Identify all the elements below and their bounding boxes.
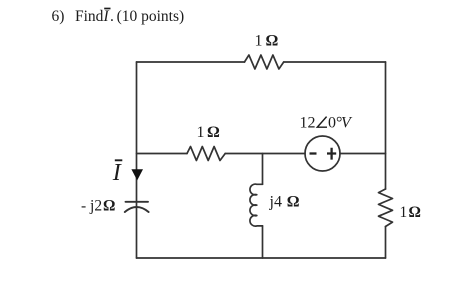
wire top rail left segment bbox=[137, 61, 245, 63]
wire middle branch upper bbox=[262, 154, 264, 185]
svg-text:12: 12 bbox=[300, 115, 316, 132]
svg-text:j4: j4 bbox=[269, 193, 282, 210]
wire middle rail right of source bbox=[340, 153, 386, 155]
capacitor C -j2 ohm top plate bbox=[126, 201, 149, 203]
current arrow I on left rail bbox=[131, 169, 143, 180]
svg-text:(10 points): (10 points) bbox=[117, 8, 185, 25]
wire middle branch lower bbox=[262, 226, 264, 258]
resistor R middle 1 ohm zigzag bbox=[187, 147, 225, 161]
svg-text:- j2: - j2 bbox=[81, 198, 102, 215]
svg-text:I: I bbox=[112, 160, 122, 186]
svg-text:1: 1 bbox=[197, 124, 205, 141]
voltage source U1 circle 12 angle 0 V bbox=[305, 136, 340, 171]
capacitor C -j2 ohm curved plate bbox=[125, 207, 149, 212]
svg-text:.: . bbox=[110, 8, 114, 25]
svg-text:Ω: Ω bbox=[207, 124, 220, 141]
wire right rail lower bbox=[385, 227, 387, 259]
resistor R top 1 ohm zigzag bbox=[245, 55, 284, 69]
svg-text:Find: Find bbox=[75, 8, 104, 25]
wire bottom rail bbox=[137, 257, 386, 259]
svg-text:I: I bbox=[103, 8, 110, 25]
wire middle rail left segment bbox=[137, 153, 188, 155]
svg-text:V: V bbox=[341, 115, 353, 132]
svg-text:6): 6) bbox=[52, 8, 65, 25]
wire right rail upper bbox=[385, 62, 387, 189]
voltage source plus sign bbox=[327, 148, 336, 160]
svg-text:1: 1 bbox=[400, 204, 408, 221]
inductor L j4 ohm coil bbox=[250, 184, 263, 226]
svg-text:Ω: Ω bbox=[287, 193, 300, 210]
svg-text:Ω: Ω bbox=[266, 33, 279, 50]
wire top rail right segment bbox=[284, 61, 386, 63]
resistor R right 1 ohm vertical zigzag bbox=[379, 189, 393, 227]
wire middle rail between resistor and source bbox=[225, 153, 305, 155]
svg-text:Ω: Ω bbox=[409, 204, 421, 221]
voltage source minus sign bbox=[310, 152, 317, 154]
svg-text:Ω: Ω bbox=[103, 198, 115, 215]
wire left rail bbox=[136, 62, 138, 258]
svg-text:1: 1 bbox=[255, 33, 263, 50]
